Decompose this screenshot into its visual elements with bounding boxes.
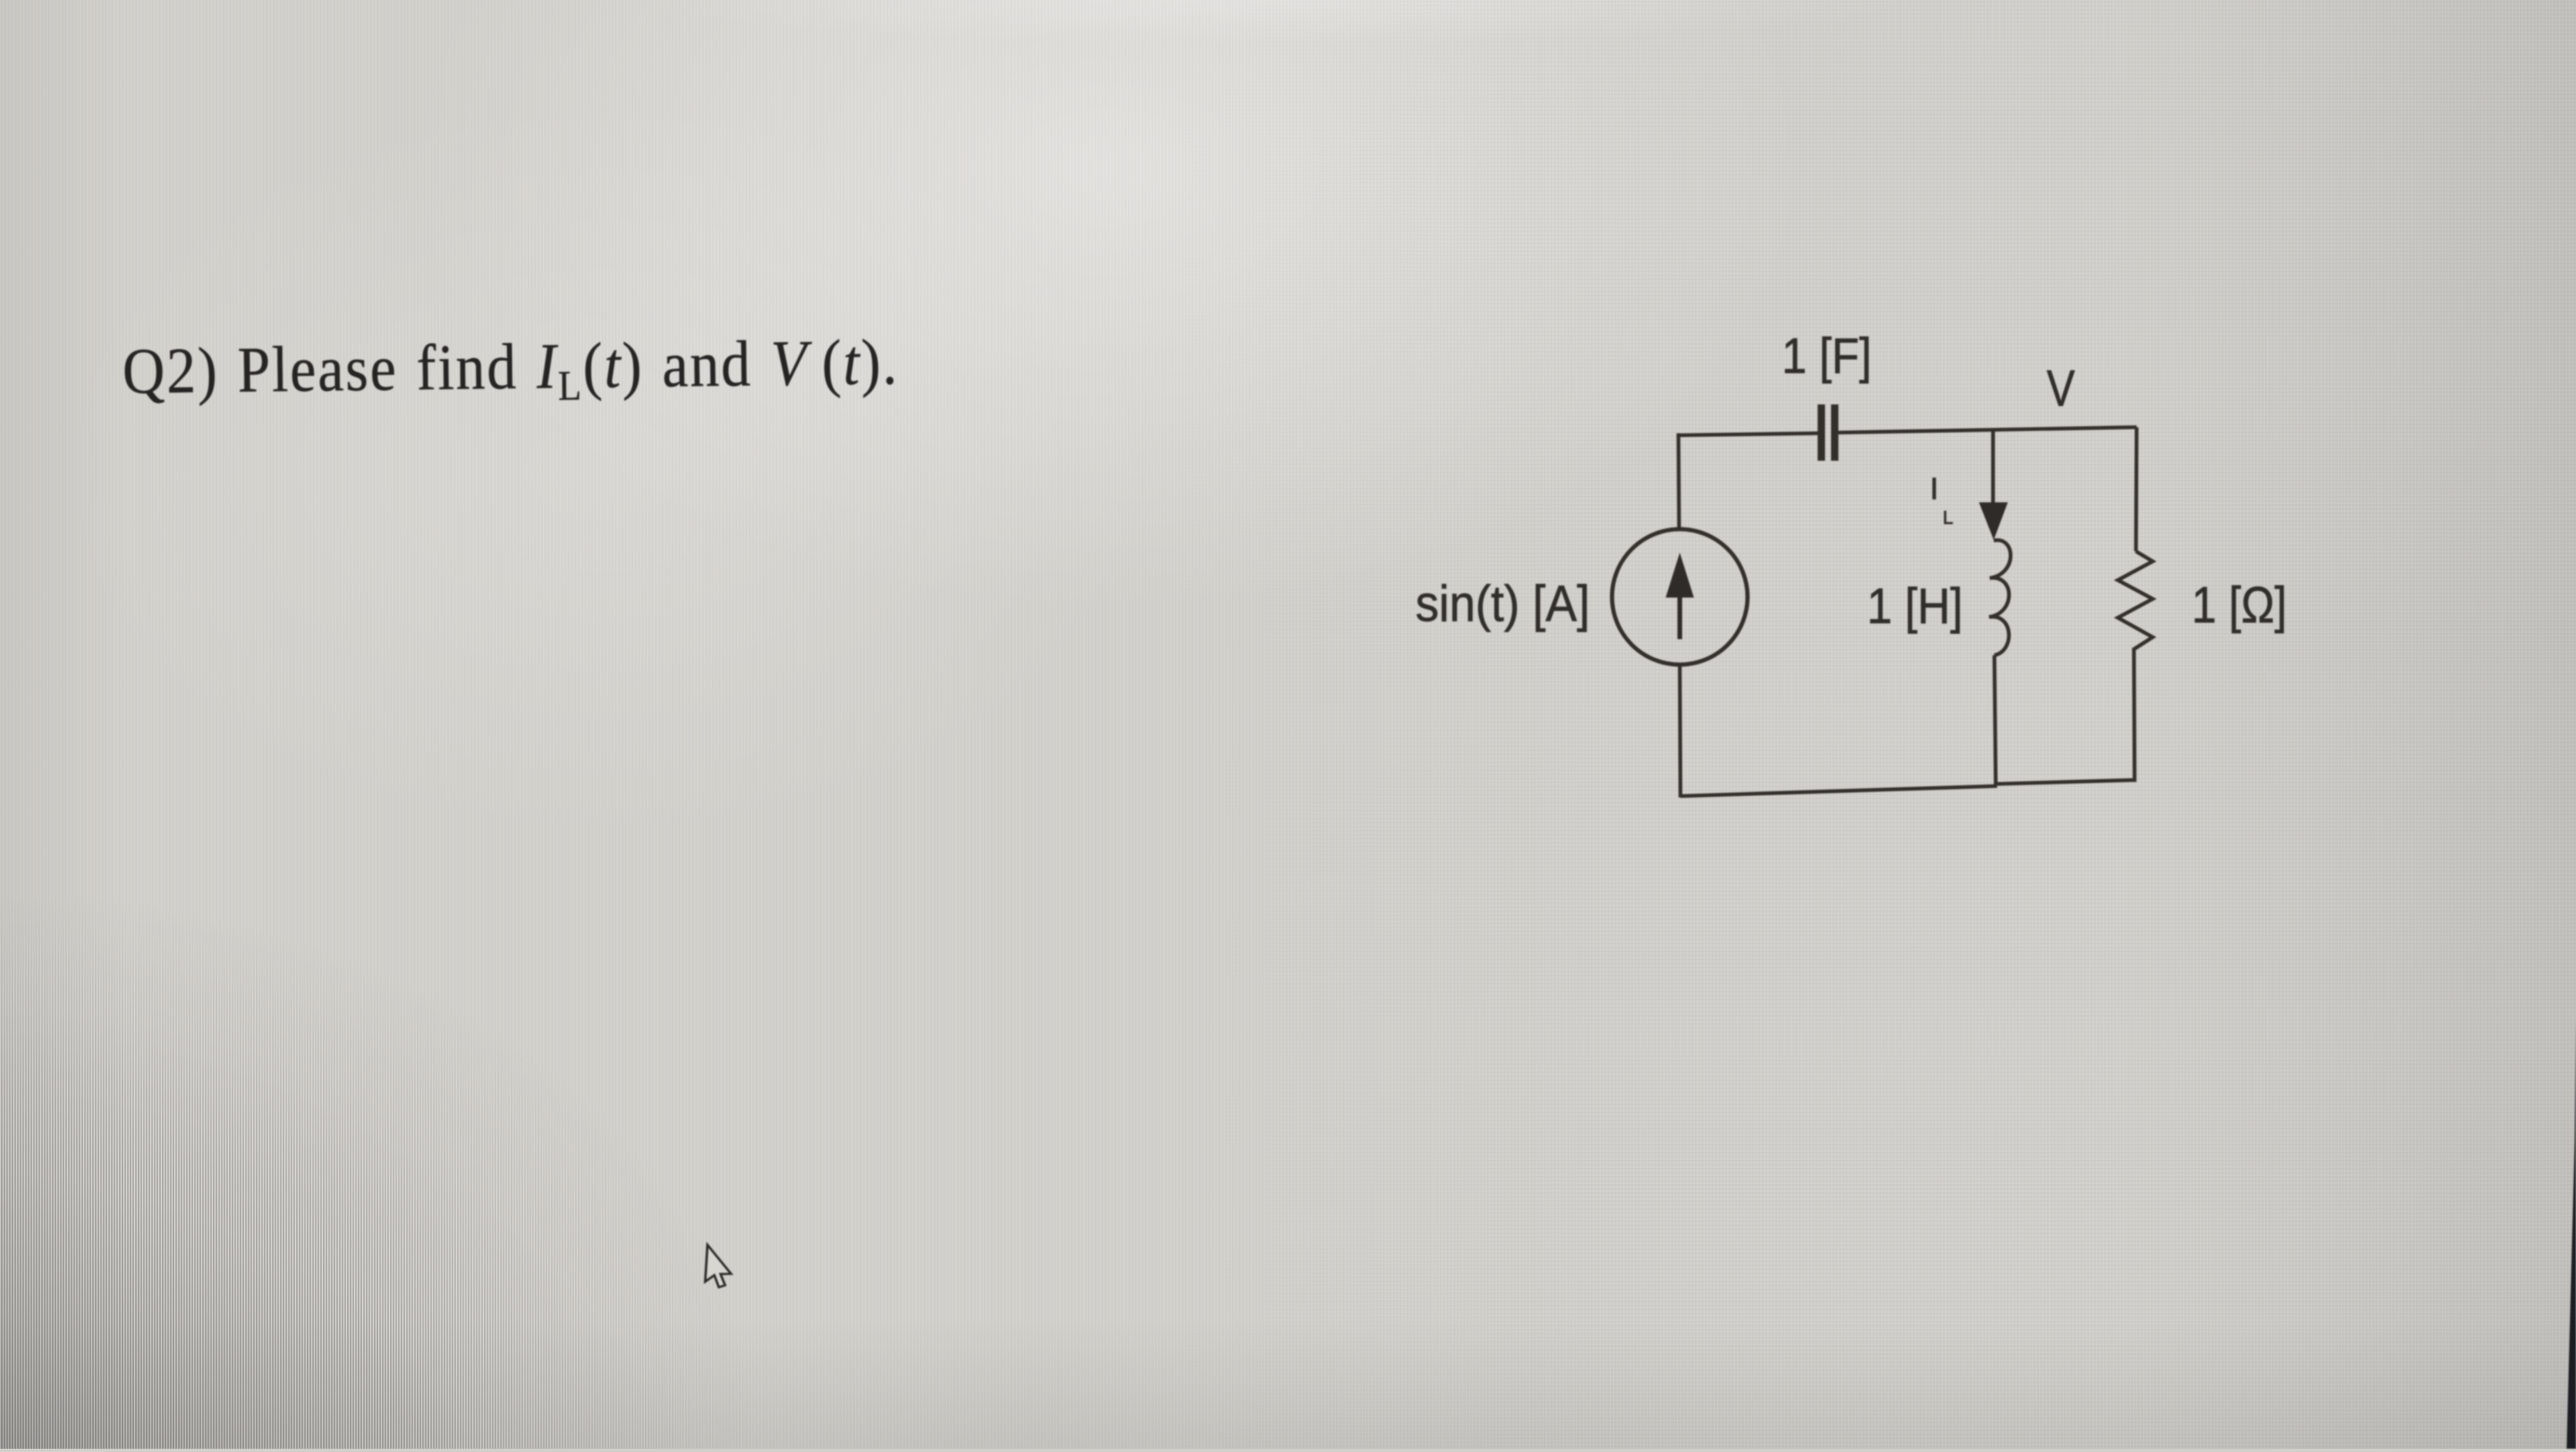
- wire right vertical lower: [2134, 648, 2135, 782]
- question text: [122, 326, 900, 414]
- svg-text:L: L: [1943, 507, 1953, 528]
- wire bottom-right step segment: [1994, 780, 2135, 784]
- current source I1 sin(t) circle: [1612, 529, 1748, 665]
- wire right vertical upper: [2136, 427, 2137, 551]
- wire left vertical upper: [1678, 433, 1679, 530]
- wire inductor branch bottom: [1994, 655, 1996, 785]
- wire left vertical lower: [1680, 665, 1680, 797]
- mouse cursor: [705, 1245, 733, 1288]
- wire inductor branch top stub: [1991, 430, 1995, 504]
- capacitor C 1[F] right plate: [1831, 404, 1839, 461]
- svg-text:Q2) Please find IL(t) and V (t: Q2) Please find IL(t) and V (t).: [122, 326, 900, 414]
- svg-text:sin(t) [A]: sin(t) [A]: [1415, 575, 1590, 632]
- current source arrow: [1678, 583, 1682, 639]
- current IL arrowhead: [1979, 502, 2008, 540]
- resistor R1 1[ohm] zigzag: [2118, 551, 2153, 649]
- svg-text:1 [Ω]: 1 [Ω]: [2192, 577, 2287, 634]
- capacitor C 1[F] left plate: [1818, 404, 1825, 461]
- svg-text:I: I: [1930, 471, 1939, 506]
- svg-text:1 [H]: 1 [H]: [1867, 578, 1963, 634]
- wire top-left horizontal segment: [1678, 433, 1818, 435]
- svg-text:1 [F]: 1 [F]: [1782, 328, 1872, 384]
- screen bezel edge (bottom-right): [2567, 1019, 2576, 1449]
- inductor L1 1[H] coil: [1989, 540, 2010, 655]
- wire top-right horizontal segment: [1838, 427, 2137, 433]
- svg-text:V: V: [2047, 360, 2075, 417]
- wire bottom horizontal: [1680, 786, 1997, 796]
